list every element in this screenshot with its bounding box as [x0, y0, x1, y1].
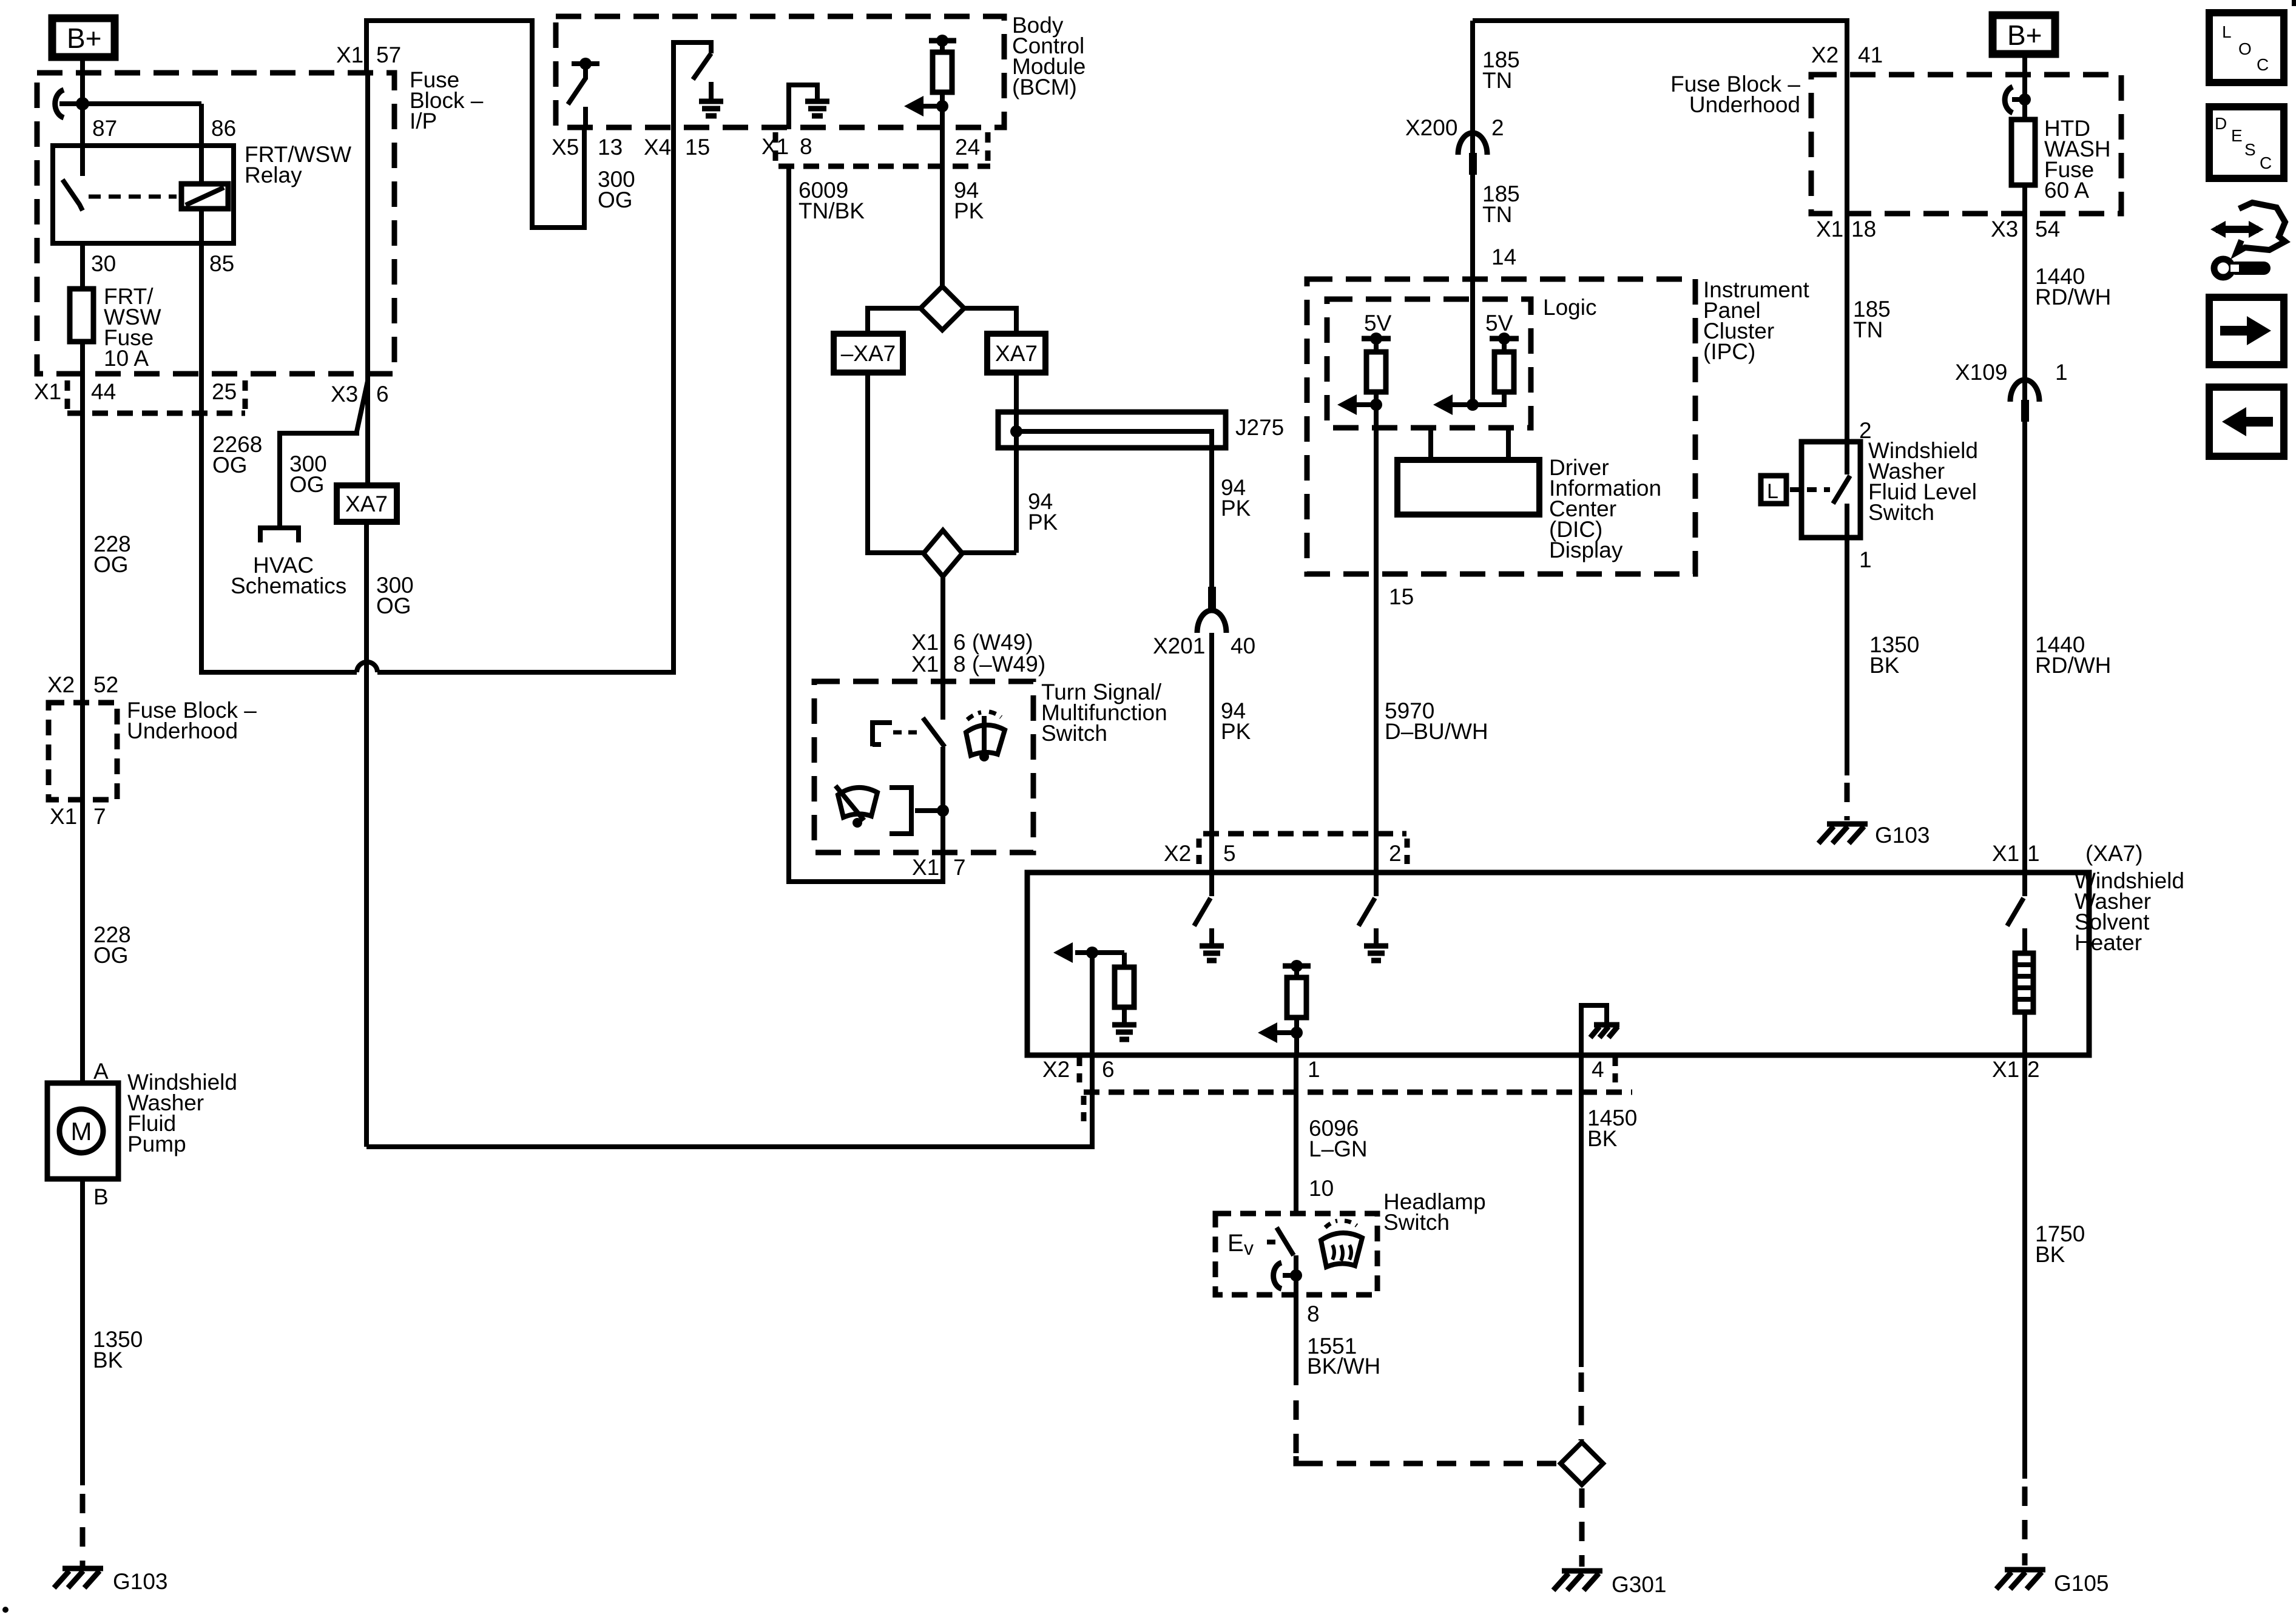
label Body Control Module (BCM): [1012, 13, 1086, 100]
ground G103 (pump): [54, 1568, 103, 1588]
relay actuator dashed link: [89, 195, 177, 199]
-XA7 connector box: [834, 334, 903, 373]
svg-text:G105: G105: [2054, 1571, 2109, 1596]
svg-text:60 A: 60 A: [2044, 178, 2089, 203]
Fuse Block - Underhood (left) dashed box: [49, 703, 117, 800]
connector X1 strip dashed (pins 44 / 25): [67, 380, 245, 413]
wire fuse to X1 44: [80, 342, 85, 413]
wire 86 to coil: [199, 104, 204, 184]
heated windshield icon: [1321, 1221, 1362, 1267]
label X4 15: [644, 135, 710, 160]
level sensor L box: [1761, 476, 1786, 504]
svg-text:13: 13: [598, 135, 623, 160]
label X3 54: [1991, 217, 2060, 241]
svg-text:15: 15: [685, 135, 710, 160]
relay coil diagonal: [186, 187, 224, 205]
svg-text:TN/BK: TN/BK: [799, 198, 865, 223]
label Windshield Washer Fluid Pump: [127, 1070, 237, 1156]
svg-text:54: 54: [2035, 217, 2060, 241]
splice diamond G301: [1561, 1442, 1603, 1485]
dashed wire to G103: [80, 1494, 86, 1567]
svg-text:Heater: Heater: [2075, 930, 2142, 955]
DIC stubs to logic: [1431, 428, 1508, 460]
wire diamond to XA7: [964, 308, 1016, 334]
label FRT/WSW Fuse 10 A: [104, 284, 161, 371]
svg-text:OG: OG: [93, 943, 129, 968]
svg-text:C: C: [2257, 55, 2269, 74]
label 6009 TN/BK: [799, 178, 865, 223]
svg-text:Switch: Switch: [1383, 1210, 1450, 1235]
wire XA7 down through hop to heater feed: [364, 522, 369, 1147]
svg-text:J275: J275: [1235, 415, 1284, 440]
svg-text:2: 2: [1491, 115, 1504, 140]
label 300 OG (main): [376, 573, 414, 618]
svg-text:(BCM): (BCM): [1012, 75, 1077, 100]
wire XA7 down through J275: [1014, 373, 1019, 553]
wire pin6 down and across to 300 OG: [366, 953, 1092, 1147]
arrow left input: [1337, 394, 1376, 415]
svg-text:TN: TN: [1482, 68, 1512, 93]
junction dot: [936, 35, 948, 47]
HVAC branch fork: [260, 528, 299, 542]
label 1450 BK: [1587, 1106, 1637, 1151]
bus wire continues: [377, 42, 711, 672]
label X5 13: [552, 135, 623, 160]
svg-text:BK/WH: BK/WH: [1307, 1354, 1380, 1379]
ground G301: [1553, 1571, 1602, 1590]
detent dashed link: [893, 731, 922, 735]
5V bar left with dot: [1362, 333, 1391, 345]
svg-text:15: 15: [1389, 584, 1414, 609]
svg-text:5: 5: [1223, 841, 1236, 866]
svg-text:BK: BK: [1869, 653, 1900, 678]
label 1750 BK: [2035, 1221, 2085, 1267]
svg-text:25: 25: [212, 379, 237, 404]
svg-text:10 A: 10 A: [104, 346, 149, 371]
wire splice to multifunction switch: [940, 576, 945, 720]
svg-text:X1: X1: [911, 652, 939, 677]
label 1350 BK (fluid switch): [1869, 632, 1919, 678]
wire -XA7 down to lower splice: [868, 373, 923, 553]
svg-text:XA7: XA7: [345, 491, 388, 516]
label FRT/WSW Relay: [245, 142, 351, 187]
label X2 5 2: [1164, 841, 1402, 866]
HTD WASH Fuse 60A symbol: [2011, 120, 2035, 185]
headlamp internal hook: [1274, 1263, 1296, 1289]
BCM X4 internal ground: [699, 82, 723, 116]
B+ battery feed symbol (right): [1993, 15, 2055, 54]
svg-text:TN: TN: [1482, 202, 1512, 227]
svg-text:4: 4: [1592, 1057, 1604, 1082]
heater pin4 internal chassis ground: [1581, 1005, 1619, 1055]
svg-text:7: 7: [93, 804, 106, 829]
label Turn Signal/Multifunction Switch: [1041, 680, 1167, 746]
svg-text:OG: OG: [289, 472, 325, 497]
wire arm to park contact: [940, 747, 945, 852]
label X201 40: [1153, 633, 1255, 658]
svg-text:X3: X3: [1991, 217, 2018, 241]
wire coil to pin 85: [199, 209, 204, 243]
label Fuse Block - I/P: [410, 67, 484, 133]
svg-text:L: L: [2222, 22, 2232, 41]
wire X109 to heater pin X1 1: [2022, 402, 2027, 873]
heater lower connector dashed strip: [1084, 1092, 1632, 1124]
svg-text:XA7: XA7: [995, 341, 1038, 366]
label X1 6 (W49) / X1 8 (-W49): [911, 630, 1045, 677]
label 185 TN (above X200): [1482, 47, 1520, 93]
heater pin1 resistor: [1287, 966, 1306, 1018]
XA7 connector box: [337, 485, 397, 522]
wire 85 down to X1 25: [199, 243, 204, 413]
label X1 44 25: [34, 379, 237, 404]
svg-text:Logic: Logic: [1543, 295, 1596, 320]
label X1 2 (heater): [1992, 1057, 2040, 1082]
svg-text:1: 1: [2055, 360, 2068, 385]
wire resistor to pin 24: [940, 92, 945, 129]
bus wire hook to coil pin 86: [59, 101, 201, 106]
in-line connector X200: [1458, 133, 1487, 175]
svg-text:I/P: I/P: [410, 109, 437, 133]
wire B+ to HTD WASH fuse: [2022, 54, 2027, 120]
wire 6009 BCM to switch pin 7: [789, 166, 943, 882]
label 185 TN (below X200): [1482, 181, 1520, 227]
label 228 OG: [93, 532, 131, 577]
label 5970 D-BU/WH: [1385, 698, 1488, 744]
label 185 TN (fluid switch): [1853, 297, 1891, 342]
svg-text:B+: B+: [2007, 19, 2042, 51]
label 1551 BK/WH: [1307, 1334, 1380, 1379]
wire heater X1 2 to G105: [2022, 1055, 2027, 1479]
svg-text:G301: G301: [1612, 1572, 1667, 1597]
svg-text:G103: G103: [113, 1569, 168, 1594]
svg-text:X1: X1: [911, 630, 939, 655]
svg-text:(XA7): (XA7): [2085, 841, 2143, 866]
fluid level switch lower stub: [1845, 504, 1849, 538]
svg-text:14: 14: [1491, 245, 1516, 269]
label X2 6: [1042, 1057, 1115, 1084]
svg-text:X1: X1: [34, 379, 61, 404]
svg-text:8: 8: [800, 134, 812, 159]
branch jog to HVAC: [280, 381, 368, 525]
XA7 connector box (center): [987, 334, 1045, 373]
J275 internal bus: [1016, 431, 1212, 448]
BCM 24 internal resistor: [940, 41, 945, 52]
dashed wire to G103 (right): [1845, 783, 1850, 820]
relay switch arm: [62, 180, 83, 211]
wire heater pin1 to headlamp switch: [1294, 1055, 1298, 1214]
arrow right input: [1433, 394, 1473, 415]
heater internal resistor to ground: [1112, 953, 1136, 1039]
junction dot on 185 TN: [1467, 399, 1479, 411]
svg-text:E: E: [2231, 126, 2243, 145]
svg-text:TN: TN: [1853, 317, 1883, 342]
wire heater pin4 1450 BK: [1579, 1055, 1584, 1367]
svg-text:M: M: [71, 1117, 92, 1146]
fluid level switch arm: [1833, 476, 1850, 504]
svg-text:(IPC): (IPC): [1703, 339, 1755, 364]
ground G103 (fluid switch): [1818, 824, 1868, 843]
BCM X5 switch arm: [568, 65, 586, 104]
svg-text:–XA7: –XA7: [841, 341, 896, 366]
svg-text:10: 10: [1309, 1176, 1334, 1201]
wiper switch arm: [923, 718, 945, 747]
label X200 2: [1405, 115, 1504, 140]
label 94 PK (below X201): [1221, 698, 1251, 744]
svg-text:X1: X1: [761, 134, 789, 159]
heater pin2 switch: [1359, 873, 1376, 926]
Windshield Washer Fluid Level Switch box: [1801, 442, 1860, 538]
svg-text:Display: Display: [1549, 538, 1623, 562]
label 2268 OG: [212, 432, 262, 478]
BCM X1 8 internal ground: [789, 85, 829, 129]
svg-text:PK: PK: [1028, 510, 1058, 535]
dashed wire to G301 splice: [1579, 1372, 1584, 1440]
svg-text:X2: X2: [47, 672, 75, 697]
B+ battery feed symbol (left): [52, 18, 115, 57]
label 4 (heater pin): [1592, 1057, 1615, 1084]
svg-text:OG: OG: [212, 453, 248, 478]
Body Control Module (BCM) dashed box: [556, 16, 1004, 127]
svg-text:B+: B+: [67, 22, 102, 54]
wire pump to ground: [80, 1179, 85, 1485]
label X3 6: [331, 382, 389, 407]
sidebar DESC icon: [2209, 107, 2284, 178]
dashed wire to G105: [2022, 1487, 2028, 1565]
label X1 7 (switch output): [912, 855, 966, 880]
L dashed link: [1790, 487, 1830, 492]
svg-text:5V: 5V: [1364, 311, 1392, 336]
svg-text:S: S: [2244, 140, 2256, 159]
svg-text:X2: X2: [1164, 841, 1191, 866]
svg-text:Schematics: Schematics: [231, 573, 346, 598]
relay coil box: [181, 184, 228, 209]
BCM X4 internal switch arm: [693, 53, 711, 79]
Instrument Panel Cluster dashed box: [1307, 279, 1695, 574]
wire IPC pin 14: [1470, 21, 1475, 405]
svg-text:44: 44: [91, 379, 116, 404]
sidebar LOC icon: [2209, 13, 2284, 83]
label X1 18: [1816, 217, 1876, 241]
heater pin1 output arrow: [1258, 1018, 1303, 1055]
svg-text:X2: X2: [1042, 1057, 1070, 1082]
wire fuse to X3 54: [2022, 185, 2027, 402]
svg-text:86: 86: [211, 116, 236, 141]
label Driver Information Center (DIC) Display: [1549, 455, 1661, 562]
svg-text:RD/WH: RD/WH: [2035, 653, 2111, 678]
wire top bus to underhood fuse block: [1473, 21, 1847, 75]
heater pin5 switch: [1194, 873, 1212, 926]
svg-text:D–BU/WH: D–BU/WH: [1385, 719, 1488, 744]
BCM inner connector strip dashed: [775, 132, 990, 166]
svg-text:A: A: [93, 1059, 109, 1084]
svg-text:X200: X200: [1405, 115, 1457, 140]
svg-text:24: 24: [955, 135, 980, 160]
heater pin1 voltage bar: [1283, 960, 1311, 972]
label Headlamp Switch: [1383, 1189, 1486, 1235]
svg-text:L–GN: L–GN: [1309, 1136, 1368, 1161]
5V bar right with dot: [1490, 333, 1519, 345]
sidebar back arrow icon: [2209, 387, 2284, 456]
wire left pullup to pin 15: [1374, 392, 1379, 574]
svg-text:Switch: Switch: [1868, 500, 1934, 525]
svg-text:2: 2: [2027, 1057, 2040, 1082]
svg-text:85: 85: [209, 251, 234, 276]
wire J275 to X201: [1209, 448, 1214, 587]
label 1350 BK: [93, 1327, 143, 1372]
bus wire 85 to BCM X4 15 with hop: [201, 670, 357, 675]
Logic dashed box: [1327, 299, 1531, 428]
page corner dot: [2, 1607, 8, 1613]
svg-text:OG: OG: [93, 552, 129, 577]
wire hop arc: [357, 662, 377, 672]
wire underhood block to pump: [80, 413, 85, 1083]
label X1 57: [336, 42, 401, 67]
svg-text:O: O: [2238, 39, 2252, 58]
X1 57 wire loop over fuse block: [366, 21, 584, 228]
bus bar hook (fuse block internal tap): [55, 90, 64, 118]
wire relay 30 to fuse: [80, 243, 85, 289]
resistor right 5V: [1494, 339, 1514, 392]
wiper icon (wipe, upper right): [966, 712, 1005, 761]
svg-text:87: 87: [92, 116, 117, 141]
X3 6 feed wire: [365, 73, 370, 485]
J275 pass-through body: [998, 412, 1226, 448]
Headlamp Switch dashed box: [1215, 1214, 1377, 1295]
svg-text:B: B: [93, 1184, 109, 1209]
label X109 1: [1955, 360, 2068, 385]
in-line connector X201: [1197, 587, 1226, 633]
svg-text:X1: X1: [50, 804, 77, 829]
wire 228 OG relay-85 bus down: [199, 413, 204, 675]
svg-text:6 (W49): 6 (W49): [953, 630, 1033, 655]
label HVAC Schematics: [231, 553, 346, 598]
wire XA7 drop joins lower splice: [962, 550, 1016, 555]
svg-text:18: 18: [1851, 217, 1876, 241]
detent bracket symbol: [873, 723, 892, 746]
wire headlamp pin 8: [1294, 1295, 1298, 1385]
in-line connector X109: [2010, 380, 2039, 422]
label Fuse Block - Underhood: [127, 698, 257, 743]
wire B+ to relay bus: [80, 57, 85, 146]
resistor left 5V: [1366, 339, 1386, 392]
park contact bracket: [890, 788, 943, 834]
Fuse Block - Underhood (right) dashed box: [1811, 75, 2121, 214]
svg-text:X1: X1: [336, 42, 363, 67]
svg-text:8 (–W49): 8 (–W49): [953, 652, 1045, 677]
svg-text:X109: X109: [1955, 360, 2007, 385]
label 300 OG (X5 wire): [598, 167, 635, 212]
label X1 1 (heater): [1992, 841, 2040, 866]
svg-text:41: 41: [1858, 42, 1883, 67]
svg-text:BK: BK: [2035, 1242, 2065, 1267]
Windshield Washer Fluid Pump motor: [47, 1083, 118, 1179]
FRT/WSW Relay box: [53, 146, 234, 243]
label 6096 L-GN: [1309, 1116, 1368, 1161]
svg-text:PK: PK: [954, 198, 984, 223]
svg-text:X2: X2: [1811, 42, 1838, 67]
wire 185 TN to fluid level switch: [1845, 75, 1849, 442]
Fuse Block - I/P dashed box: [37, 73, 394, 374]
label X1 8: [761, 134, 812, 159]
svg-text:1: 1: [1308, 1057, 1320, 1082]
svg-text:X1: X1: [1816, 217, 1843, 241]
wire BCM 24 to splice diamond: [940, 129, 945, 288]
svg-text:Underhood: Underhood: [1689, 92, 1800, 117]
svg-text:1: 1: [2027, 841, 2040, 866]
page corner tick: [2292, 0, 2296, 6]
heater connector strip dashed (pins 5/2): [1199, 834, 1407, 865]
label 1440 RD/WH (upper): [2035, 264, 2111, 309]
label X2 52: [47, 672, 118, 697]
svg-text:Switch: Switch: [1041, 721, 1107, 746]
svg-text:X1: X1: [912, 855, 939, 880]
Windshield Washer Solvent Heater box: [1027, 873, 2089, 1055]
wiper/washer icon (wash, lower left): [836, 786, 877, 828]
svg-text:2: 2: [1389, 841, 1402, 866]
label 94 PK (J275 left drop): [1028, 489, 1058, 535]
svg-text:PK: PK: [1221, 496, 1251, 521]
svg-text:57: 57: [376, 42, 401, 67]
svg-text:X201: X201: [1153, 633, 1205, 658]
svg-text:OG: OG: [598, 187, 633, 212]
junction dot park contact: [937, 805, 949, 817]
label 228 OG (lower): [93, 922, 131, 968]
bus bar hook (underhood): [2005, 87, 2013, 113]
heater pin2 earth ground: [1364, 928, 1388, 960]
label 300 OG (HVAC branch): [289, 451, 327, 497]
heater pin6 output arrow: [1053, 942, 1124, 963]
junction dot in J275: [1010, 425, 1022, 437]
fluid level switch stub: [1845, 442, 1849, 474]
wire X5 13 pin stub: [583, 107, 588, 129]
DIC display box: [1397, 460, 1539, 515]
heater pin5 earth ground: [1200, 928, 1224, 960]
splice diamond (94 PK): [920, 286, 964, 330]
svg-text:Pump: Pump: [127, 1132, 186, 1156]
svg-text:8: 8: [1307, 1301, 1320, 1326]
relay pin 87 stub: [80, 104, 85, 176]
svg-text:1: 1: [1859, 547, 1872, 572]
svg-text:X4: X4: [644, 135, 671, 160]
junction dot at relay pin 87 feed: [76, 97, 89, 110]
label Instrument Panel Cluster (IPC): [1703, 277, 1810, 364]
svg-text:BK: BK: [93, 1348, 123, 1372]
svg-text:40: 40: [1231, 633, 1255, 658]
svg-text:52: 52: [93, 672, 118, 697]
headlamp switch arm: [1277, 1227, 1302, 1295]
svg-text:30: 30: [91, 251, 116, 276]
lower splice diamond: [923, 530, 962, 576]
label Ev: [1227, 1230, 1275, 1259]
heater element: [2007, 873, 2033, 1055]
svg-text:D: D: [2215, 114, 2227, 133]
wire right pullup to 185 TN node: [1473, 392, 1504, 405]
sidebar part-locator icon: [2210, 203, 2285, 277]
junction dot output driver: [936, 100, 948, 112]
svg-text:7: 7: [953, 855, 966, 880]
wire fluid switch to ground: [1845, 538, 1849, 775]
dashed wire 1551 to splice: [1296, 1400, 1559, 1463]
svg-text:6: 6: [376, 382, 389, 407]
sidebar next arrow icon: [2209, 297, 2284, 365]
svg-text:6: 6: [1102, 1057, 1115, 1082]
label Fuse Block - Underhood (right): [1670, 72, 1800, 117]
svg-text:5V: 5V: [1485, 311, 1513, 336]
svg-text:v: v: [1244, 1237, 1254, 1259]
svg-text:Underhood: Underhood: [127, 718, 238, 743]
svg-text:OG: OG: [376, 593, 411, 618]
BCM 24 internal voltage bar: [929, 38, 956, 44]
